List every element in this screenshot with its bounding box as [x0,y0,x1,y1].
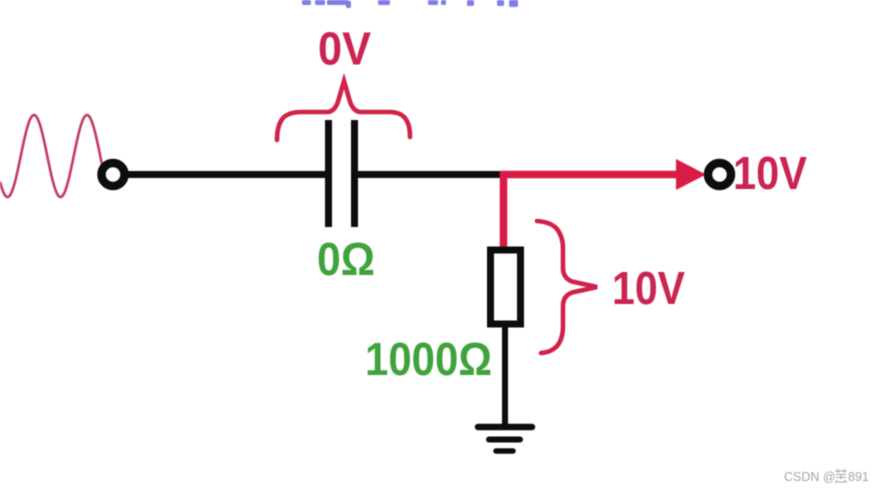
wire: resistor to ground [502,327,508,428]
watermark CSDN @... [784,470,869,484]
input terminal [102,163,125,186]
wire: capacitor right plate to junction [357,171,503,178]
source sine wave [0,115,106,197]
ground symbol [478,427,532,451]
capacitor C left plate [325,120,332,227]
brace over capacitor (0V span) [277,81,410,140]
watermark CJK glyph (approx) [835,469,847,482]
output terminal [708,163,731,186]
wire: input terminal to capacitor left plate [124,171,326,178]
svg-text:891: 891 [848,470,869,484]
red output wire (node to arrow) [500,171,681,179]
svg-text:0Ω: 0Ω [317,233,375,285]
svg-text:10V: 10V [733,147,807,199]
blue title text (cropped at top) [302,0,518,8]
arrowhead [676,159,706,190]
svg-text:CSDN @: CSDN @ [784,470,836,484]
capacitor C right plate [351,120,358,227]
red wire: junction down to resistor [500,171,508,252]
brace right of resistor (10V span) [537,221,597,353]
svg-text:10V: 10V [612,262,685,314]
resistor R body [491,250,521,324]
svg-text:0V: 0V [318,23,371,75]
svg-text:1000Ω: 1000Ω [365,333,492,385]
